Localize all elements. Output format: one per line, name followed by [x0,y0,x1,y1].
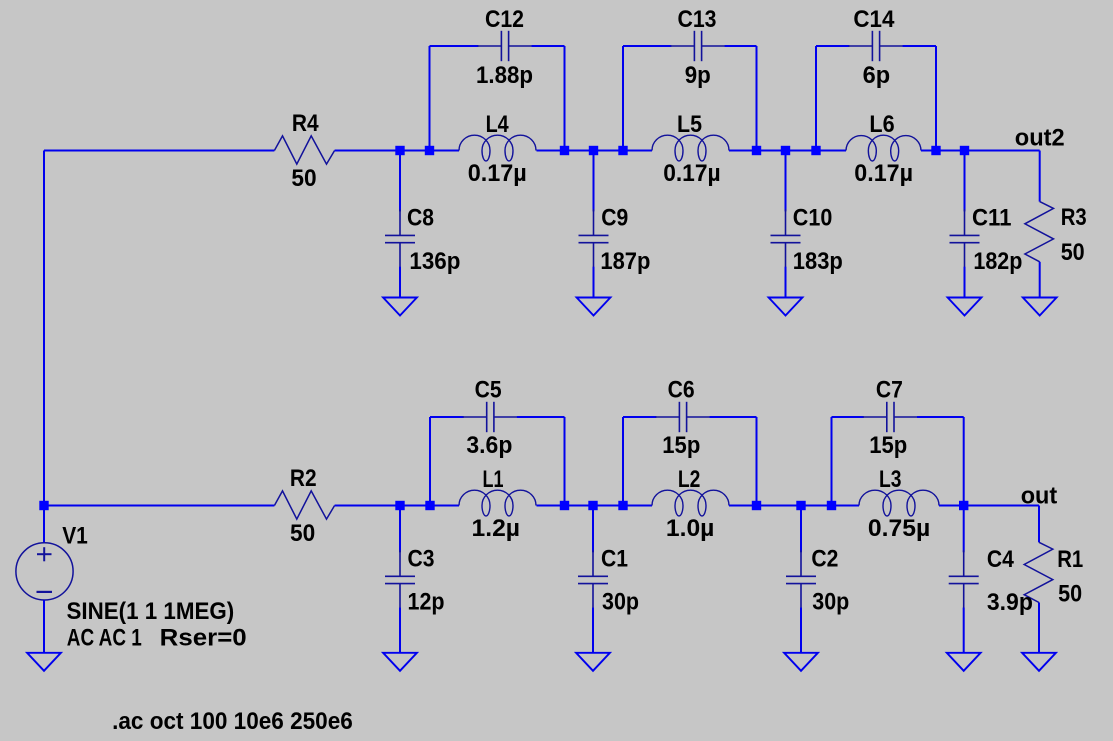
svg-text:AC AC 1: AC AC 1 [67,625,142,652]
svg-text:50: 50 [291,165,316,192]
svg-text:6p: 6p [863,62,891,89]
svg-text:L5: L5 [677,111,702,138]
svg-text:L3: L3 [879,466,902,493]
svg-text:C14: C14 [853,6,895,33]
svg-text:50: 50 [290,520,315,547]
svg-text:9p: 9p [685,62,711,89]
svg-text:12p: 12p [408,588,445,615]
svg-text:out: out [1021,483,1058,510]
svg-text:15p: 15p [869,432,907,459]
svg-text:R4: R4 [292,110,319,137]
svg-text:0.75µ: 0.75µ [868,515,930,542]
svg-text:187p: 187p [600,248,650,275]
svg-text:C7: C7 [876,377,903,404]
svg-text:L1: L1 [483,466,504,493]
svg-text:L4: L4 [486,111,510,138]
svg-text:R1: R1 [1057,546,1083,573]
svg-text:0.17µ: 0.17µ [468,160,527,187]
svg-text:C1: C1 [601,545,628,572]
svg-text:R3: R3 [1061,204,1087,231]
svg-text:3.6p: 3.6p [466,432,512,459]
svg-text:50: 50 [1061,239,1085,266]
svg-text:C13: C13 [678,6,717,33]
svg-text:1.0µ: 1.0µ [666,515,715,542]
svg-text:C6: C6 [668,377,695,404]
svg-text:V1: V1 [62,522,88,549]
svg-text:1.88p: 1.88p [476,62,533,89]
svg-text:Rser=0: Rser=0 [160,625,247,652]
svg-text:182p: 182p [973,248,1022,275]
svg-text:50: 50 [1058,581,1082,608]
svg-text:C9: C9 [601,204,628,231]
svg-text:3.9p: 3.9p [987,589,1033,616]
svg-text:0.17µ: 0.17µ [663,160,720,187]
svg-text:.ac oct 100 10e6 250e6: .ac oct 100 10e6 250e6 [112,708,353,735]
svg-text:C10: C10 [793,204,833,231]
svg-text:C11: C11 [972,204,1012,231]
svg-text:136p: 136p [409,248,460,275]
svg-text:183p: 183p [793,248,843,275]
svg-text:C4: C4 [987,546,1015,573]
svg-text:1.2µ: 1.2µ [472,515,521,542]
svg-text:C12: C12 [485,6,524,33]
svg-text:L2: L2 [678,466,701,493]
svg-text:C3: C3 [408,545,435,572]
svg-text:C8: C8 [407,204,434,231]
svg-text:30p: 30p [812,588,849,615]
svg-text:C2: C2 [811,545,838,572]
svg-text:15p: 15p [662,432,700,459]
svg-text:30p: 30p [602,588,639,615]
svg-text:R2: R2 [290,465,317,492]
svg-text:0.17µ: 0.17µ [854,160,913,187]
svg-text:SINE(1 1 1MEG): SINE(1 1 1MEG) [67,598,235,625]
svg-text:L6: L6 [869,111,894,138]
svg-text:C5: C5 [475,377,502,404]
svg-text:out2: out2 [1015,124,1065,151]
